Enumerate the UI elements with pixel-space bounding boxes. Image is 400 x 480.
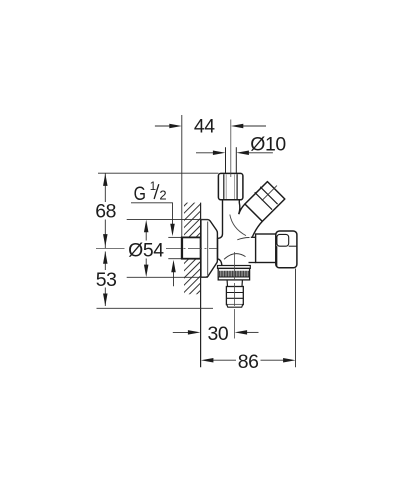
bottom outlet centerline: [233, 252, 235, 339]
svg-text:Ø54: Ø54: [128, 239, 164, 261]
dimension 44: [155, 125, 266, 127]
svg-text:1: 1: [150, 181, 156, 193]
main horizontal centerline: [96, 247, 223, 249]
dimension 86: [211, 359, 285, 361]
knurled union nut: [218, 268, 249, 280]
wall hatching: [180, 180, 224, 305]
top hex nut: [218, 173, 243, 199]
hose barb neck: [227, 280, 242, 286]
dimension 53: [104, 252, 106, 307]
body right edge below branch: [251, 236, 253, 239]
cap inner edge: [276, 246, 278, 266]
svg-text:Ø10: Ø10: [250, 133, 286, 155]
internal outlet-top arc: [237, 237, 249, 239]
rosette escutcheon: [201, 220, 218, 278]
hose barb body: [226, 287, 243, 305]
dimension diameter 54: [145, 228, 147, 269]
wall face line: [200, 203, 202, 368]
extension lines diameter 54: [127, 219, 208, 221]
knurl bottom line: [218, 276, 249, 278]
svg-text:30: 30: [208, 323, 229, 345]
body left edge: [218, 200, 223, 265]
valve body: [218, 200, 252, 265]
branch cap ring line 2: [260, 187, 277, 204]
bottom collar flange: [218, 266, 251, 269]
45-degree branch cap (check valve cartridge): [245, 182, 285, 222]
dimension 68: [104, 173, 106, 248]
svg-text:68: 68: [95, 201, 116, 223]
knurl texture: [220, 271, 249, 277]
extension line 68 top: [98, 172, 218, 174]
right outlet neck: [251, 236, 256, 238]
branch cap ring line 1: [255, 192, 272, 209]
internal passage arc: [230, 215, 246, 236]
barb end: [227, 305, 243, 308]
dimension diameter 10: [196, 152, 273, 154]
nut facet line right: [236, 174, 238, 199]
inlet pipe walls: [225, 147, 227, 173]
barb ridges: [227, 292, 244, 294]
nut facet line left: [223, 174, 225, 199]
svg-text:G: G: [134, 183, 146, 205]
cap facet line: [289, 245, 297, 247]
svg-text:53: 53: [96, 269, 117, 291]
branch facet line: [262, 186, 277, 201]
extension line 86 right: [295, 269, 297, 368]
right outlet cylinder: [256, 234, 277, 263]
knurl texture base: [219, 271, 249, 277]
right outlet cap nut: [276, 231, 297, 268]
svg-text:44: 44: [194, 115, 215, 137]
inlet pipe centerline: [230, 120, 232, 178]
body neck right edge: [239, 200, 240, 214]
svg-text:2: 2: [159, 188, 166, 203]
extension line 44 left / wall back line: [181, 115, 183, 237]
in-wall connection block G1/2: [168, 236, 182, 238]
rosette inner edge: [207, 222, 209, 276]
cap hex facet box: [277, 234, 289, 246]
dimension 30: [173, 331, 259, 333]
svg-text:86: 86: [238, 351, 259, 373]
G1/2 lower pointer: [173, 267, 175, 286]
nut facet shading: [225, 174, 227, 199]
G1/2 leader line: [131, 203, 173, 229]
internal bottom dome arc: [224, 254, 246, 260]
45-degree branch neck: [239, 204, 245, 214]
extension line 53 bottom: [97, 307, 214, 309]
